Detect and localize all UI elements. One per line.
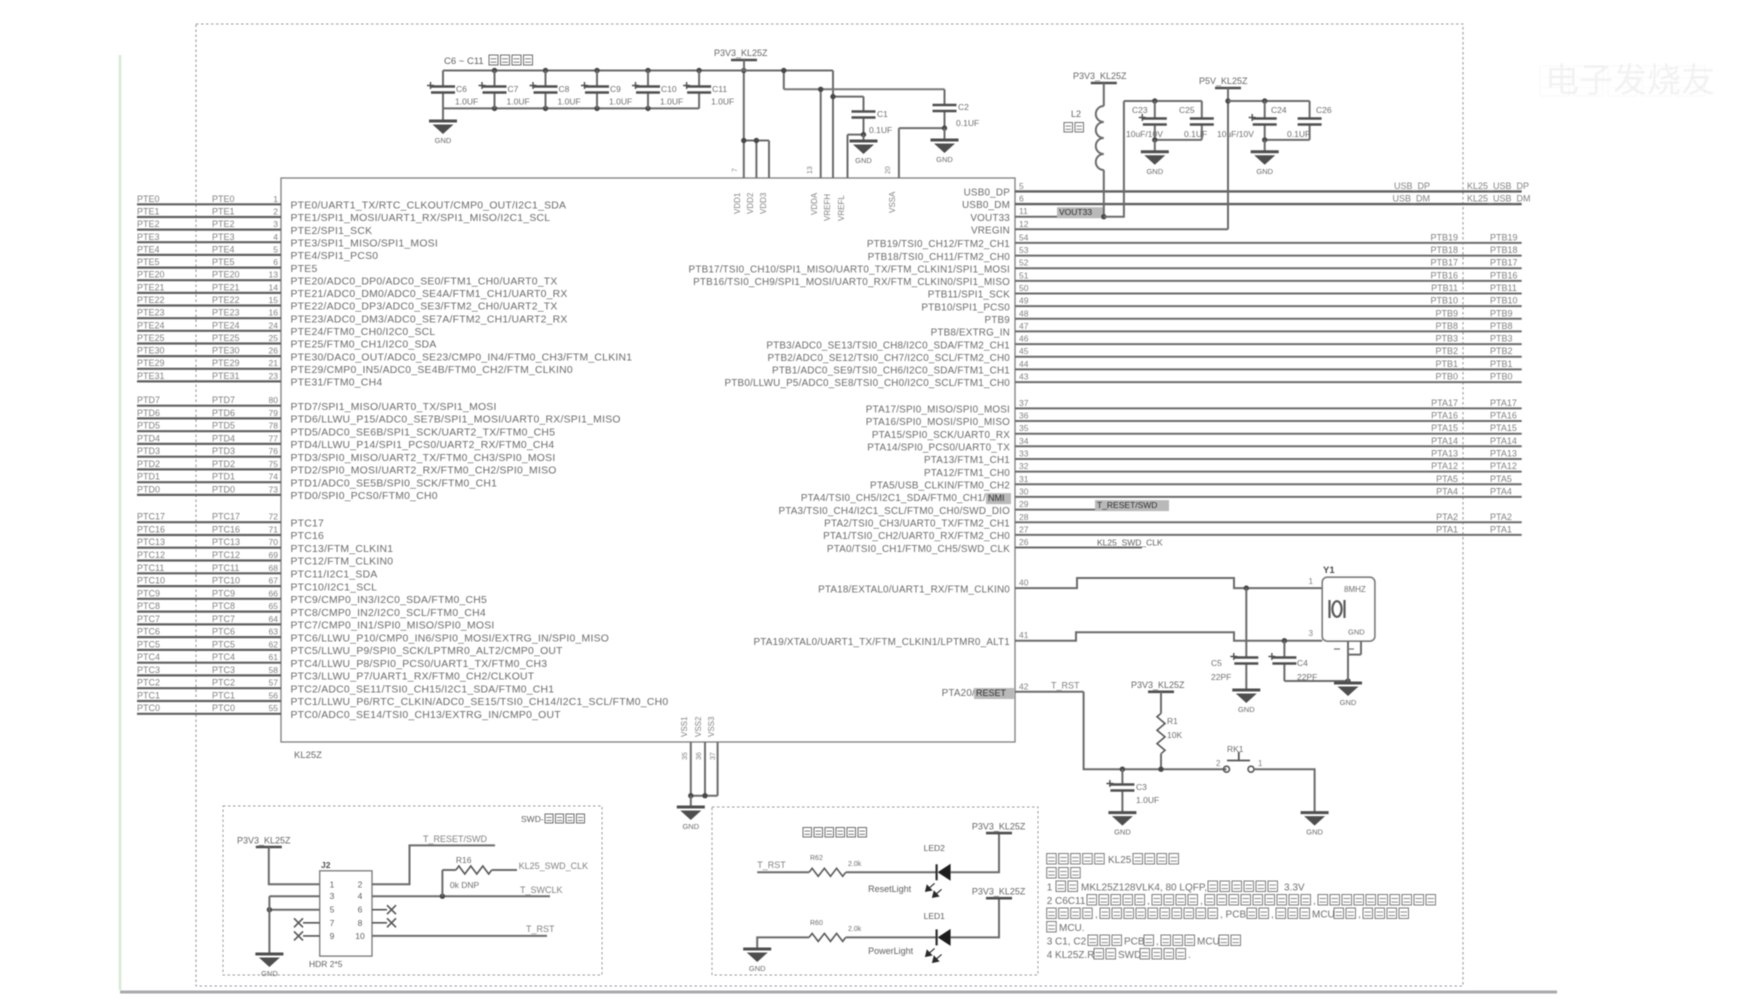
no-connect J2 pin7 xyxy=(294,918,320,927)
ground C2 xyxy=(931,128,959,164)
svg-text:PTD3: PTD3 xyxy=(137,446,160,456)
svg-text:C1: C1 xyxy=(877,109,888,119)
pin 28 PTA2 xyxy=(824,512,1522,530)
svg-text:GND: GND xyxy=(1340,698,1357,707)
svg-text:PTB9: PTB9 xyxy=(985,315,1011,326)
svg-text:PTC2: PTC2 xyxy=(212,678,235,688)
pin 44 PTB1 xyxy=(772,359,1522,377)
ground C1 xyxy=(850,135,878,165)
svg-text:47: 47 xyxy=(1019,321,1029,331)
svg-text:C6 ~ C11: C6 ~ C11 xyxy=(444,56,484,67)
svg-text:PTA13: PTA13 xyxy=(1490,449,1517,459)
svg-text:3: 3 xyxy=(1309,629,1314,638)
resistor R2 xyxy=(809,855,937,876)
svg-text:GND: GND xyxy=(855,156,872,165)
svg-text:T_RESET/SWD: T_RESET/SWD xyxy=(423,834,488,844)
svg-text:22PF: 22PF xyxy=(1211,672,1231,682)
capacitor C25 0.1UF xyxy=(1179,101,1214,140)
svg-text:69: 69 xyxy=(269,550,279,560)
svg-text:36: 36 xyxy=(1019,411,1029,421)
svg-text:PTD4: PTD4 xyxy=(137,433,160,443)
power flag P3V3_KL25Z LED1 xyxy=(951,887,1026,938)
svg-text:PTB18/TSI0_CH11/FTM2_CH0: PTB18/TSI0_CH11/FTM2_CH0 xyxy=(868,252,1011,263)
svg-text:GND: GND xyxy=(1114,828,1131,837)
svg-text:43: 43 xyxy=(1019,372,1029,382)
svg-text:PTE30/DAC0_OUT/ADC0_SE23/CMP0_: PTE30/DAC0_OUT/ADC0_SE23/CMP0_IN4/FTM0_C… xyxy=(291,352,633,363)
svg-text:PTB3: PTB3 xyxy=(1490,334,1513,344)
svg-text:PTA12: PTA12 xyxy=(1431,461,1458,471)
svg-text:45: 45 xyxy=(1019,346,1029,356)
wire T_RST to R2 xyxy=(757,860,809,872)
wire VREFL to C1 bottom xyxy=(848,132,867,137)
no-connect J2 pin8 xyxy=(372,918,396,927)
svg-text:PTB17/TSI0_CH10/SPI1_MISO/UART: PTB17/TSI0_CH10/SPI1_MISO/UART0_TX/FTM_C… xyxy=(689,264,1010,275)
svg-text:55: 55 xyxy=(269,703,279,713)
svg-text:T_SWCLK: T_SWCLK xyxy=(520,885,563,895)
svg-text:36: 36 xyxy=(696,752,703,760)
svg-text:LED1: LED1 xyxy=(924,911,946,921)
svg-text:L2: L2 xyxy=(1071,109,1081,119)
svg-text:PTE22/ADC0_DP3/ADC0_SE3/FTM2_C: PTE22/ADC0_DP3/ADC0_SE3/FTM2_CH0/UART2_T… xyxy=(291,302,558,313)
svg-text:PTA16: PTA16 xyxy=(1431,411,1458,421)
svg-text:PTD6: PTD6 xyxy=(137,408,160,418)
pin 14 PTE21 xyxy=(137,282,568,300)
svg-text:PTE0: PTE0 xyxy=(212,194,235,204)
svg-text:65: 65 xyxy=(269,601,279,611)
wire VSS join xyxy=(688,793,718,798)
pin 26 PTE30 xyxy=(137,346,632,364)
svg-text:PTC17: PTC17 xyxy=(137,512,165,522)
svg-text:PTE25/FTM0_CH1/I2C0_SDA: PTE25/FTM0_CH1/I2C0_SDA xyxy=(291,340,437,351)
svg-text:KL25_USB_DM: KL25_USB_DM xyxy=(1467,194,1531,204)
pin 62 PTC5 xyxy=(137,639,563,657)
svg-text:USB_DP: USB_DP xyxy=(1394,181,1430,191)
pin VSS2 xyxy=(694,716,705,796)
pin 12 VREGIN xyxy=(971,219,1228,237)
pin 42 PTA20 RESET xyxy=(942,681,1084,700)
SWD debug module box xyxy=(223,806,602,975)
capacitor C10 1.0UF xyxy=(632,71,683,109)
svg-text:PTB11/SPI1_SCK: PTB11/SPI1_SCK xyxy=(928,290,1010,301)
pin 6 PTE5 xyxy=(137,257,318,275)
pin 15 PTE22 xyxy=(137,295,558,313)
svg-text:35: 35 xyxy=(1019,423,1029,433)
svg-text:PTA4/TSI0_CH5/I2C1_SDA/FTM0_CH: PTA4/TSI0_CH5/I2C1_SDA/FTM0_CH1/ xyxy=(801,493,986,504)
svg-text:PTD1/ADC0_SE5B/SPI0_SCK/FTM0_C: PTD1/ADC0_SE5B/SPI0_SCK/FTM0_CH1 xyxy=(291,478,498,489)
svg-text:VDDA: VDDA xyxy=(810,192,819,215)
svg-text:61: 61 xyxy=(269,652,279,662)
svg-text:PTB1/ADC0_SE9/TSI0_CH6/I2C0_SD: PTB1/ADC0_SE9/TSI0_CH6/I2C0_SDA/FTM1_CH1 xyxy=(772,366,1010,377)
svg-text:PTA3/TSI0_CH4/I2C1_SCL/FTM0_CH: PTA3/TSI0_CH4/I2C1_SCL/FTM0_CH0/SWD_DIO xyxy=(778,506,1010,517)
svg-text:RK1: RK1 xyxy=(1227,744,1244,754)
node VDDA rail xyxy=(781,68,944,92)
svg-text:VOUT33: VOUT33 xyxy=(1059,207,1092,217)
svg-text:PowerLight: PowerLight xyxy=(868,946,914,956)
pin 26 PTA0 KL25_SWD_CLK xyxy=(827,537,1163,555)
svg-text:T_RST: T_RST xyxy=(526,924,555,934)
svg-text:PTD4/LLWU_P14/SPI1_PCS0/UART2_: PTD4/LLWU_P14/SPI1_PCS0/UART2_RX/FTM0_CH… xyxy=(291,440,555,451)
svg-text:PTD5: PTD5 xyxy=(212,421,235,431)
svg-text:PTB2: PTB2 xyxy=(1435,346,1458,356)
svg-text:T_RST: T_RST xyxy=(1051,681,1080,691)
connector J2 HDR 2*5 xyxy=(309,860,372,969)
pin 70 PTC13 xyxy=(137,537,393,555)
svg-text:PTE22: PTE22 xyxy=(137,295,165,305)
svg-text:PTE25: PTE25 xyxy=(137,333,165,343)
svg-text:37: 37 xyxy=(1019,398,1029,408)
svg-text:PTD2: PTD2 xyxy=(212,459,235,469)
svg-text:PTA4: PTA4 xyxy=(1490,486,1512,496)
pin VREFL xyxy=(837,135,848,221)
svg-text:GND: GND xyxy=(435,136,452,145)
svg-text:PTE4/SPI1_PCS0: PTE4/SPI1_PCS0 xyxy=(291,251,379,262)
svg-text:PTA20/: PTA20/ xyxy=(942,688,975,699)
svg-text:PTC8/CMP0_IN2/I2C0_SCL/FTM0_CH: PTC8/CMP0_IN2/I2C0_SCL/FTM0_CH4 xyxy=(291,608,486,619)
svg-text:1: 1 xyxy=(1258,759,1263,768)
svg-text:80: 80 xyxy=(269,395,279,405)
svg-text:T_RST: T_RST xyxy=(757,860,786,870)
capacitor C11 1.0UF xyxy=(683,71,734,109)
pin 63 PTC6 xyxy=(137,627,609,645)
svg-text:35: 35 xyxy=(682,752,689,760)
svg-text:13: 13 xyxy=(807,166,814,174)
resistor R16 0k DNP xyxy=(442,855,588,896)
svg-text:MCU: MCU xyxy=(1312,910,1335,921)
svg-text:73: 73 xyxy=(269,484,279,494)
svg-text:6: 6 xyxy=(358,905,363,915)
inductor L2 xyxy=(1064,83,1104,217)
svg-text:PTC13/FTM_CLKIN1: PTC13/FTM_CLKIN1 xyxy=(291,544,394,555)
svg-text:PTE25: PTE25 xyxy=(212,333,240,343)
svg-text:PTA0/TSI0_CH1/FTM0_CH5/SWD_CLK: PTA0/TSI0_CH1/FTM0_CH5/SWD_CLK xyxy=(827,544,1010,555)
svg-text:PTB8: PTB8 xyxy=(1435,321,1458,331)
svg-text:1.0UF: 1.0UF xyxy=(1136,795,1159,805)
pin 47 PTB8 xyxy=(931,321,1522,339)
svg-text:37: 37 xyxy=(710,752,717,760)
svg-text:26: 26 xyxy=(269,346,279,356)
svg-text:6: 6 xyxy=(273,257,278,267)
svg-text:PTE30: PTE30 xyxy=(212,346,240,356)
ground C3 xyxy=(1108,813,1136,837)
pin 52 PTB17 xyxy=(689,258,1522,276)
svg-text:PTB1: PTB1 xyxy=(1435,359,1458,369)
svg-text:52: 52 xyxy=(1019,258,1029,268)
capacitor C23 10uF/10V xyxy=(1126,101,1167,140)
svg-text:7: 7 xyxy=(330,918,335,928)
svg-text:,: , xyxy=(1358,910,1361,921)
svg-text:VOUT33: VOUT33 xyxy=(970,213,1010,224)
svg-text:0.1UF: 0.1UF xyxy=(1287,129,1310,139)
power flag P3V3_KL25Z R1 xyxy=(1131,680,1185,713)
svg-text:, PCB: , PCB xyxy=(1220,910,1246,921)
svg-text:USB0_DM: USB0_DM xyxy=(962,200,1010,211)
svg-text:PTA13/FTM1_CH1: PTA13/FTM1_CH1 xyxy=(924,455,1010,466)
svg-text:ResetLight: ResetLight xyxy=(868,884,912,894)
pin 58 PTC3 xyxy=(137,665,535,683)
svg-text:PTA1: PTA1 xyxy=(1436,524,1458,534)
svg-text:8: 8 xyxy=(358,918,363,928)
svg-text:C23: C23 xyxy=(1132,105,1148,115)
svg-text:PTD5/ADC0_SE6B/SPI1_SCK/UART2_: PTD5/ADC0_SE6B/SPI1_SCK/UART2_TX/FTM0_CH… xyxy=(291,427,556,438)
svg-text:,: , xyxy=(1313,896,1316,907)
svg-text:25: 25 xyxy=(269,333,279,343)
pin 5 PTE4 xyxy=(137,244,378,262)
ground J2 xyxy=(255,896,283,978)
pin 36 PTA16 xyxy=(866,411,1522,429)
svg-text:PTE29: PTE29 xyxy=(137,358,165,368)
resistor R1 10K xyxy=(1157,713,1182,772)
svg-text:5: 5 xyxy=(330,905,335,915)
pin 37 PTA17 xyxy=(866,398,1522,416)
ground RK1 xyxy=(1301,813,1329,837)
svg-text:PTC1: PTC1 xyxy=(212,691,235,701)
svg-text:0.1UF: 0.1UF xyxy=(956,118,979,128)
svg-text:GND: GND xyxy=(936,155,953,164)
svg-text:PTA1: PTA1 xyxy=(1490,524,1512,534)
svg-text:46: 46 xyxy=(1019,334,1029,344)
svg-text:26: 26 xyxy=(1019,537,1029,547)
pin 80 PTD7 xyxy=(137,395,497,413)
svg-text:20: 20 xyxy=(885,166,892,174)
svg-text:PTE5: PTE5 xyxy=(291,264,318,275)
pin 1 PTE0 xyxy=(137,194,566,212)
pin 56 PTC1 xyxy=(137,691,668,709)
svg-text:49: 49 xyxy=(1019,296,1029,306)
svg-text:PTE29/CMP0_IN5/ADC0_SE4B/FTM0_: PTE29/CMP0_IN5/ADC0_SE4B/FTM0_CH2/FTM_CL… xyxy=(291,365,573,376)
svg-text:PTC9: PTC9 xyxy=(212,588,235,598)
svg-text:PTC2: PTC2 xyxy=(137,678,160,688)
capacitor C3 1.0UF xyxy=(1106,767,1159,812)
svg-text:11: 11 xyxy=(1019,206,1028,216)
svg-text:PTA2: PTA2 xyxy=(1436,512,1458,522)
pin 78 PTD5 xyxy=(137,421,555,439)
svg-text:KL25_SWD_CLK: KL25_SWD_CLK xyxy=(519,861,589,871)
pin VSSA xyxy=(885,128,899,213)
svg-text:44: 44 xyxy=(1019,359,1029,369)
svg-text:PTC13: PTC13 xyxy=(137,537,165,547)
svg-text:PTC17: PTC17 xyxy=(212,512,240,522)
pin 2 PTE1 xyxy=(137,207,550,225)
svg-text:PTA2: PTA2 xyxy=(1490,512,1512,522)
svg-text:71: 71 xyxy=(269,525,279,535)
svg-text:31: 31 xyxy=(1019,474,1029,484)
svg-text:66: 66 xyxy=(269,588,279,598)
svg-text:PTE21: PTE21 xyxy=(137,282,165,292)
svg-text:P3V3_KL25Z: P3V3_KL25Z xyxy=(237,836,291,846)
svg-text:PTE20: PTE20 xyxy=(137,270,165,280)
svg-text:C3: C3 xyxy=(1136,782,1147,792)
capacitor C9 1.0UF xyxy=(581,71,632,109)
svg-text:1.0UF: 1.0UF xyxy=(455,97,478,107)
svg-text:PTC5: PTC5 xyxy=(137,639,160,649)
svg-text:PTB1: PTB1 xyxy=(1490,359,1513,369)
svg-text:PTE24/FTM0_CH0/I2C0_SCL: PTE24/FTM0_CH0/I2C0_SCL xyxy=(291,327,436,338)
svg-text:PTC11/I2C1_SDA: PTC11/I2C1_SDA xyxy=(291,570,378,581)
ground Y1 C4 xyxy=(1334,683,1362,707)
pin 79 PTD6 xyxy=(137,408,621,426)
svg-text:PTD0: PTD0 xyxy=(212,484,235,494)
pin VDD1 xyxy=(732,139,744,214)
svg-text:GND: GND xyxy=(261,969,278,978)
pin 72 PTC17 xyxy=(137,512,324,530)
svg-text:1: 1 xyxy=(1309,577,1314,586)
power flag P3V3_KL25Z top xyxy=(714,48,768,71)
svg-text:GND: GND xyxy=(1348,628,1365,637)
pin 57 PTC2 xyxy=(137,678,554,696)
svg-text:33: 33 xyxy=(1019,449,1029,459)
svg-text:C26: C26 xyxy=(1316,105,1332,115)
capacitor C5 22PF xyxy=(1211,588,1258,689)
svg-text:VSS1: VSS1 xyxy=(680,716,689,737)
svg-text:2 C6C11: 2 C6C11 xyxy=(1047,896,1086,907)
pin 23 PTE31 xyxy=(137,371,382,389)
svg-text:PTD7/SPI1_MISO/UART0_TX/SPI1_M: PTD7/SPI1_MISO/UART0_TX/SPI1_MOSI xyxy=(291,402,497,413)
svg-text:1.0UF: 1.0UF xyxy=(609,97,632,107)
svg-text:PTC1: PTC1 xyxy=(137,691,160,701)
svg-text:PTC10: PTC10 xyxy=(137,576,165,586)
svg-text:PTC11: PTC11 xyxy=(212,563,239,573)
svg-text:76: 76 xyxy=(269,446,279,456)
wire T_RST reset net xyxy=(1084,692,1227,769)
pin 21 PTE29 xyxy=(137,358,573,376)
capacitor C26 0.1UF xyxy=(1287,101,1332,140)
svg-text:T_RESET/SWD: T_RESET/SWD xyxy=(1097,500,1157,510)
svg-text:PTC16: PTC16 xyxy=(137,525,165,535)
svg-text:6: 6 xyxy=(1019,194,1024,204)
pin 30 PTA4 xyxy=(801,486,1522,504)
svg-text:PTD2/SPI0_MOSI/UART2_RX/FTM0_C: PTD2/SPI0_MOSI/UART2_RX/FTM0_CH2/SPI0_MI… xyxy=(291,466,557,477)
svg-text:PTB0/LLWU_P5/ADC0_SE8/TSI0_CH0: PTB0/LLWU_P5/ADC0_SE8/TSI0_CH0/I2C0_SCL/… xyxy=(725,378,1011,389)
svg-text:PTE5: PTE5 xyxy=(212,257,235,267)
pin numbers VSS xyxy=(682,752,717,760)
svg-text:62: 62 xyxy=(269,639,279,649)
svg-text:0.1UF: 0.1UF xyxy=(1184,129,1207,139)
svg-text:77: 77 xyxy=(269,433,279,443)
svg-text:PTE5: PTE5 xyxy=(137,257,160,267)
svg-text:PTE23/ADC0_DM3/ADC0_SE7A/FTM2_: PTE23/ADC0_DM3/ADC0_SE7A/FTM2_CH1/UART2_… xyxy=(291,314,568,325)
svg-text:PTB17: PTB17 xyxy=(1490,258,1518,268)
svg-text:48: 48 xyxy=(1019,308,1029,318)
svg-text:Y1: Y1 xyxy=(1323,565,1335,576)
capacitor C7 1.0UF xyxy=(479,71,530,109)
pushbutton RK1 xyxy=(1216,744,1263,772)
svg-text:41: 41 xyxy=(1019,630,1029,640)
svg-text:SWD: SWD xyxy=(1118,950,1141,961)
svg-text:PTE1/SPI1_MOSI/UART1_RX/SPI1_M: PTE1/SPI1_MOSI/UART1_RX/SPI1_MISO/I2C1_S… xyxy=(291,213,551,224)
svg-text:5: 5 xyxy=(273,244,278,254)
svg-text:PTC5: PTC5 xyxy=(212,639,235,649)
svg-text:56: 56 xyxy=(269,691,279,701)
svg-text:VSSA: VSSA xyxy=(888,191,897,213)
pin 11 VOUT33 xyxy=(970,206,1103,224)
svg-text:P5V_KL25Z: P5V_KL25Z xyxy=(1199,76,1248,86)
svg-text:63: 63 xyxy=(269,627,279,637)
svg-text:KL25: KL25 xyxy=(1108,855,1132,866)
svg-text:PTE3/SPI1_MISO/SPI1_MOSI: PTE3/SPI1_MISO/SPI1_MOSI xyxy=(291,238,438,249)
wire J2 pin4 T_SWCLK xyxy=(372,885,563,899)
svg-text:PTA13: PTA13 xyxy=(1431,449,1458,459)
svg-text:PTB9: PTB9 xyxy=(1435,308,1458,318)
pin 29 PTA3 T_RESET/SWD xyxy=(778,499,1169,517)
svg-text:1: 1 xyxy=(273,194,278,204)
pin 32 PTA12 xyxy=(924,461,1522,479)
svg-text:PTB3/ADC0_SE13/TSI0_CH8/I2C0_S: PTB3/ADC0_SE13/TSI0_CH8/I2C0_SDA/FTM2_CH… xyxy=(766,340,1010,351)
svg-text:C5: C5 xyxy=(1211,658,1222,668)
svg-text:PTE3: PTE3 xyxy=(212,232,235,242)
svg-text:78: 78 xyxy=(269,421,279,431)
LED LED1 PowerLight xyxy=(868,911,951,962)
svg-text:VDD2: VDD2 xyxy=(746,192,755,214)
svg-text:PTA16/SPI0_MOSI/SPI0_MISO: PTA16/SPI0_MOSI/SPI0_MISO xyxy=(866,417,1010,428)
svg-text:64: 64 xyxy=(269,614,279,624)
svg-text:29: 29 xyxy=(1019,499,1029,509)
svg-text:79: 79 xyxy=(269,408,279,418)
svg-text:KL25_SWD_CLK: KL25_SWD_CLK xyxy=(1097,538,1163,548)
svg-text:75: 75 xyxy=(269,459,279,469)
wire VDD feed xyxy=(741,68,769,143)
svg-text:5: 5 xyxy=(1019,181,1024,191)
wire J2 pin10 T_RST xyxy=(372,924,555,936)
capacitor C24 10uF/10V xyxy=(1217,101,1287,140)
pin VSS1 xyxy=(680,716,691,796)
svg-text:VDD1: VDD1 xyxy=(733,192,742,214)
svg-text:PTA14: PTA14 xyxy=(1431,436,1458,446)
power flag P5V_KL25Z xyxy=(1199,76,1248,229)
svg-text:3: 3 xyxy=(330,891,335,901)
svg-text:PTA5: PTA5 xyxy=(1490,474,1512,484)
svg-text:PTA15: PTA15 xyxy=(1431,423,1458,433)
svg-text:10K: 10K xyxy=(1167,730,1182,740)
svg-text:PTC6: PTC6 xyxy=(212,627,235,637)
svg-text:PTC2/ADC0_SE11/TSI0_CH15/I2C1_: PTC2/ADC0_SE11/TSI0_CH15/I2C1_SDA/FTM0_C… xyxy=(291,684,555,695)
svg-text:MCU.: MCU. xyxy=(1059,923,1085,934)
rail C24 C26 xyxy=(1228,98,1310,103)
svg-text:54: 54 xyxy=(1019,232,1029,242)
wire VREFH to C1 xyxy=(830,94,863,99)
svg-text:PTC8: PTC8 xyxy=(137,601,160,611)
svg-text:1.0UF: 1.0UF xyxy=(711,97,734,107)
svg-text:PTD6: PTD6 xyxy=(212,408,235,418)
svg-text:C11: C11 xyxy=(712,84,727,94)
pin VSS3 xyxy=(707,716,718,796)
pin 75 PTD2 xyxy=(137,459,557,477)
svg-text:PTC1/LLWU_P6/RTC_CLKIN/ADC0_SE: PTC1/LLWU_P6/RTC_CLKIN/ADC0_SE15/TSI0_CH… xyxy=(291,697,669,708)
pin 24 PTE24 xyxy=(137,320,435,338)
svg-text:PTA14/SPI0_PCS0/UART0_TX: PTA14/SPI0_PCS0/UART0_TX xyxy=(867,443,1010,454)
svg-text:RESET: RESET xyxy=(976,688,1007,698)
svg-text:PTB19/TSI0_CH12/FTM2_CH1: PTB19/TSI0_CH12/FTM2_CH1 xyxy=(867,239,1010,250)
svg-text:4: 4 xyxy=(358,891,363,901)
wire J2 pin2 T_RESET/SWD xyxy=(372,834,495,884)
svg-text:,: , xyxy=(1095,910,1098,921)
svg-text:PTC3: PTC3 xyxy=(212,665,235,675)
pin 41 PTA19 XTAL0 xyxy=(754,629,1323,648)
pin 48 PTB9 xyxy=(985,308,1522,326)
svg-text:PTC4/LLWU_P8/SPI0_PCS0/UART1_T: PTC4/LLWU_P8/SPI0_PCS0/UART1_TX/FTM0_CH3 xyxy=(291,659,548,670)
svg-text:PTD7: PTD7 xyxy=(212,395,235,405)
svg-text:VDD3: VDD3 xyxy=(759,192,768,214)
svg-text:PTB2: PTB2 xyxy=(1490,346,1513,356)
wire J2 pin3 to gnd rail xyxy=(269,895,319,897)
svg-text:PTC4: PTC4 xyxy=(137,652,160,662)
svg-text:VREGIN: VREGIN xyxy=(971,226,1010,237)
LED LED2 ResetLight xyxy=(868,843,951,897)
svg-text:PTC17: PTC17 xyxy=(291,518,325,529)
svg-text:C25: C25 xyxy=(1179,105,1195,115)
svg-text:GND: GND xyxy=(1238,705,1255,714)
svg-text:电子发烧友: 电子发烧友 xyxy=(1545,62,1715,100)
ground C23 C25 xyxy=(1141,137,1202,176)
